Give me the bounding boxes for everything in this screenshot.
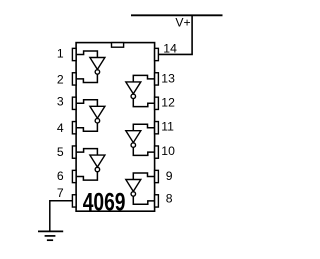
pin 8 stub: [155, 195, 159, 207]
pin 13 stub: [155, 73, 159, 85]
wire inverter U1D output to pin 8: [133, 196, 154, 204]
inverter U1A output bubble: [95, 70, 100, 75]
svg-text:8: 8: [166, 192, 173, 206]
inverter U1D output bubble: [131, 192, 136, 197]
pin 7 stub: [72, 195, 76, 207]
pin 3 stub: [72, 97, 76, 109]
pin 9 stub: [155, 170, 159, 182]
svg-text:5: 5: [57, 145, 64, 159]
svg-text:12: 12: [161, 96, 175, 110]
inverter U1B triangle: [90, 106, 105, 118]
V+ rail: [131, 14, 223, 16]
ground symbol: [38, 231, 63, 240]
IC pin-1 index notch: [112, 43, 124, 48]
wire pin 1 to inverter U1A input: [76, 51, 97, 58]
svg-text:2: 2: [57, 72, 64, 86]
wire inverter U1C output to pin 6: [76, 172, 97, 180]
svg-text:10: 10: [161, 144, 175, 158]
inverter U1A triangle: [90, 58, 105, 70]
wire inverter U1A output to pin 2: [76, 74, 97, 82]
pin 10 stub: [155, 146, 159, 158]
wire inverter U1B output to pin 4: [76, 123, 97, 131]
svg-text:6: 6: [57, 169, 64, 183]
pin 12 stub: [155, 97, 159, 109]
inverter U1C triangle: [90, 155, 105, 167]
pin 6 stub: [72, 170, 76, 182]
svg-text:13: 13: [161, 72, 175, 86]
svg-text:11: 11: [161, 120, 174, 134]
pin 4 stub: [72, 122, 76, 134]
svg-text:14: 14: [163, 41, 177, 55]
IC U1 body (4069 DIP-14): [76, 43, 155, 212]
pin 5 stub: [72, 146, 76, 158]
inverter U1E output bubble: [131, 143, 136, 148]
wire pin 7 to ground: [50, 201, 73, 231]
inverter U1B output bubble: [95, 118, 100, 123]
inverter U1C output bubble: [95, 167, 100, 172]
svg-text:3: 3: [57, 94, 64, 108]
wire pin 9 to inverter U1D input: [133, 173, 154, 180]
wire inverter U1E output to pin 10: [133, 147, 154, 155]
inverter U1F triangle: [126, 82, 141, 94]
pin 1 stub: [72, 48, 76, 60]
inverter U1D triangle: [126, 180, 141, 192]
wire pin 3 to inverter U1B input: [76, 100, 97, 107]
wire pin 5 to inverter U1C input: [76, 149, 97, 156]
wire pin 14 to V+ rail: [158, 15, 192, 54]
pin 2 stub: [72, 73, 76, 85]
svg-text:7: 7: [57, 186, 64, 200]
svg-text:V+: V+: [175, 16, 190, 30]
svg-text:4069: 4069: [83, 188, 126, 216]
wire inverter U1F output to pin 12: [133, 99, 154, 107]
svg-text:4: 4: [57, 121, 64, 135]
inverter U1E triangle: [126, 131, 141, 143]
pin 14 stub: [155, 48, 159, 60]
wire pin 13 to inverter U1F input: [133, 75, 154, 82]
inverter U1F output bubble: [131, 94, 136, 99]
pin 11 stub: [155, 122, 159, 134]
svg-text:1: 1: [57, 47, 64, 61]
wire pin 11 to inverter U1E input: [133, 124, 154, 131]
svg-text:9: 9: [166, 169, 173, 183]
